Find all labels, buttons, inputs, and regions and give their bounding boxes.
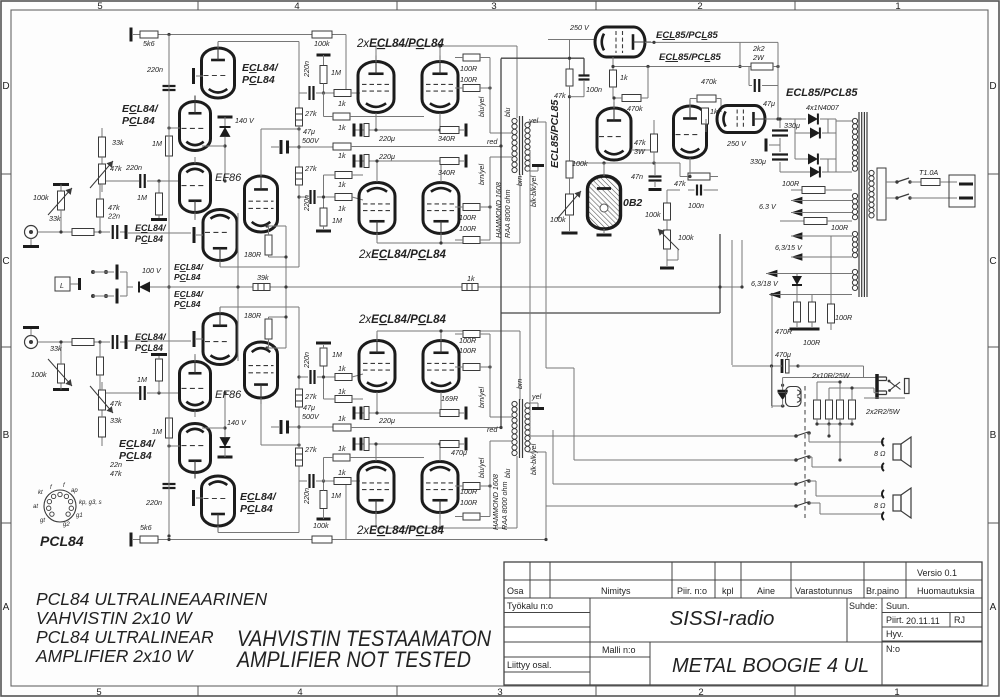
svg-text:C: C	[989, 256, 996, 267]
svg-text:1k: 1k	[338, 468, 346, 477]
svg-text:Työkalu n:o: Työkalu n:o	[507, 601, 553, 611]
cathode row upper pair	[355, 129, 464, 131]
svg-text:Aine: Aine	[757, 586, 775, 596]
capacitor 220u	[353, 124, 356, 137]
svg-text:T1.0A: T1.0A	[919, 168, 938, 177]
svg-text:4: 4	[297, 687, 302, 697]
svg-text:3: 3	[491, 1, 496, 12]
svg-text:1k: 1k	[338, 364, 346, 373]
resistor 1M on main bus	[166, 136, 173, 156]
wire	[345, 35, 347, 91]
svg-text:220n: 220n	[125, 163, 142, 172]
resistor 47k 3W	[631, 149, 654, 151]
svg-text:red: red	[487, 425, 498, 434]
tube EF86 triode V2	[180, 164, 211, 219]
potentiometer 47k	[99, 164, 106, 184]
svg-text:470k: 470k	[627, 104, 643, 113]
svg-text:100k: 100k	[678, 233, 694, 242]
svg-text:1k: 1k	[338, 204, 346, 213]
svg-text:47n: 47n	[631, 172, 643, 181]
resistor 100R v	[811, 295, 813, 303]
svg-text:140 V: 140 V	[227, 418, 247, 427]
svg-text:8 Ω: 8 Ω	[874, 449, 886, 458]
svg-text:Nimitys: Nimitys	[601, 586, 631, 596]
svg-text:PCL84: PCL84	[119, 450, 152, 462]
wires ECL85 stage	[689, 158, 691, 177]
svg-text:RAA 8000 ohm: RAA 8000 ohm	[503, 190, 512, 238]
svg-text:yel: yel	[528, 116, 539, 125]
svg-text:red: red	[487, 137, 498, 146]
title block	[504, 562, 982, 685]
capacitor 220n on main bus	[163, 86, 176, 90]
resistor 47k heater	[688, 173, 710, 180]
terminal bar	[130, 28, 133, 42]
heater winding 2	[852, 231, 857, 236]
resistor 33k feedback	[101, 128, 103, 137]
tube ECL84/PCL84 V1b	[180, 96, 211, 151]
svg-text:1k: 1k	[338, 387, 346, 396]
resistor 1k g2	[333, 113, 350, 120]
svg-text:brn/yel: brn/yel	[479, 164, 486, 185]
svg-text:2: 2	[698, 687, 703, 697]
resistor 2k2 2W	[751, 63, 773, 70]
svg-text:6,3/15 V: 6,3/15 V	[775, 243, 803, 252]
pentode EF86	[245, 170, 278, 232]
wire	[298, 42, 300, 109]
svg-text:100 V: 100 V	[142, 266, 162, 275]
svg-text:PCL84 ULTRALINEAR: PCL84 ULTRALINEAR	[36, 627, 214, 647]
speaker selector switch	[804, 386, 806, 518]
svg-text:20.11.11: 20.11.11	[906, 616, 940, 626]
svg-text:5k6: 5k6	[143, 39, 155, 48]
svg-text:100R: 100R	[835, 313, 852, 322]
svg-text:27k: 27k	[304, 392, 317, 401]
capacitor 22n	[113, 225, 118, 239]
fuse T1.0A	[910, 181, 921, 183]
svg-text:0B2: 0B2	[623, 197, 642, 209]
svg-text:PCL84: PCL84	[135, 234, 163, 244]
svg-text:340R: 340R	[438, 168, 455, 177]
svg-text:100k: 100k	[314, 39, 330, 48]
PCL84 base diagram	[44, 490, 76, 522]
svg-text:1: 1	[894, 687, 899, 697]
svg-text:100k: 100k	[550, 215, 566, 224]
svg-text:100k: 100k	[572, 159, 588, 168]
wire grid line EF86 stage	[100, 180, 139, 182]
svg-text:blu/yel: blu/yel	[479, 457, 486, 478]
svg-text:8 Ω: 8 Ω	[874, 501, 886, 510]
svg-text:1k: 1k	[338, 99, 346, 108]
svg-text:100k: 100k	[313, 521, 329, 530]
svg-text:1k: 1k	[467, 274, 475, 283]
heater winding 1	[852, 193, 857, 198]
svg-text:blu/yel: blu/yel	[479, 96, 486, 117]
capacitor 220n lower	[299, 196, 308, 198]
svg-text:L: L	[60, 283, 64, 290]
resistor 5k6	[140, 31, 158, 38]
svg-text:100k: 100k	[645, 210, 661, 219]
svg-text:330μ: 330μ	[784, 121, 800, 130]
svg-text:2xECL84/PCL84: 2xECL84/PCL84	[356, 525, 445, 537]
svg-text:Osa: Osa	[507, 586, 524, 596]
svg-text:1M: 1M	[152, 427, 162, 436]
wire B+ dark	[500, 59, 502, 428]
svg-text:100R: 100R	[459, 346, 476, 355]
svg-text:PCL84: PCL84	[135, 343, 163, 353]
svg-text:3: 3	[497, 687, 502, 697]
svg-text:500V: 500V	[302, 136, 320, 145]
resistor 47k	[566, 69, 573, 86]
svg-text:at: at	[33, 504, 38, 510]
svg-text:ap: ap	[71, 488, 78, 494]
svg-text:47k: 47k	[674, 179, 686, 188]
capacitor 470u	[781, 359, 784, 373]
resistor 1k mid	[462, 284, 478, 291]
svg-text:250 V: 250 V	[569, 23, 590, 32]
svg-text:kp, g3, s: kp, g3, s	[79, 500, 102, 506]
svg-text:PCL84: PCL84	[122, 115, 155, 127]
load resistors 2x2R2/5W	[814, 400, 821, 419]
resistor 470k 2	[697, 95, 716, 102]
wire B+ mid2	[501, 312, 720, 314]
svg-text:C: C	[2, 256, 9, 267]
resistor 1M	[320, 66, 327, 84]
cathode row lower pair	[355, 160, 464, 162]
screen resistor 100R lower	[463, 204, 480, 211]
grid coupling bar	[192, 68, 195, 84]
svg-text:PCL84: PCL84	[40, 533, 84, 549]
svg-text:220μ: 220μ	[378, 152, 395, 161]
potentiometer 100k b	[664, 230, 671, 249]
svg-text:D: D	[989, 81, 996, 92]
primary winding	[852, 118, 857, 123]
svg-text:2W: 2W	[752, 53, 765, 62]
svg-text:ECL84/: ECL84/	[119, 438, 156, 450]
resistor 100k b	[666, 190, 668, 203]
svg-text:1k: 1k	[620, 73, 628, 82]
resistor 1k g1	[334, 90, 351, 97]
svg-text:33k: 33k	[49, 214, 61, 223]
svg-text:220n: 220n	[302, 61, 311, 78]
svg-text:PCL84 ULTRALINEAARINEN: PCL84 ULTRALINEAARINEN	[36, 589, 268, 609]
core	[519, 116, 521, 175]
svg-text:5: 5	[96, 687, 101, 697]
svg-text:ECL85/PCL85: ECL85/PCL85	[659, 52, 722, 63]
svg-text:47k: 47k	[110, 469, 122, 478]
wire 250V to rectifier	[765, 118, 778, 120]
svg-text:B: B	[3, 430, 10, 441]
svg-text:kt: kt	[38, 490, 43, 496]
svg-text:169R: 169R	[441, 394, 458, 403]
svg-text:RAA 8000 ohm: RAA 8000 ohm	[500, 482, 509, 530]
svg-text:2k2: 2k2	[752, 44, 765, 53]
output tube A2	[422, 56, 458, 113]
svg-text:ECL84/: ECL84/	[135, 223, 167, 233]
mains winding	[869, 170, 874, 175]
svg-text:Malli n:o: Malli n:o	[602, 645, 636, 655]
speaker 8ohm 1	[882, 438, 884, 471]
svg-text:Varastotunnus: Varastotunnus	[795, 586, 853, 596]
svg-text:METAL BOOGIE 4 UL: METAL BOOGIE 4 UL	[672, 655, 869, 677]
resistor 1k	[610, 70, 617, 87]
resistor 470R	[794, 302, 801, 322]
svg-text:2xECL84/PCL84: 2xECL84/PCL84	[358, 249, 447, 261]
secondary	[525, 122, 530, 127]
heater 6.3V wires	[791, 189, 802, 191]
svg-text:Hyv.: Hyv.	[886, 629, 903, 639]
speaker 8ohm 2	[882, 490, 884, 520]
wire feedback box	[220, 266, 299, 268]
svg-text:2: 2	[697, 1, 702, 12]
wire inter-stage vertical	[237, 213, 239, 361]
resistor 1k B+ line	[333, 143, 351, 150]
svg-text:ECL84/: ECL84/	[174, 289, 204, 299]
svg-text:5k6: 5k6	[140, 523, 152, 532]
potentiometer 100k	[566, 194, 574, 215]
diode	[792, 276, 802, 285]
svg-text:ECL84/: ECL84/	[122, 103, 159, 115]
relay protection	[771, 366, 773, 406]
selector switch	[55, 277, 70, 291]
svg-text:HAMMOND 1608: HAMMOND 1608	[491, 474, 500, 530]
wire 250V top	[548, 39, 595, 41]
svg-text:470R: 470R	[775, 327, 792, 336]
svg-text:330μ: 330μ	[750, 157, 766, 166]
wire right verticals	[719, 234, 721, 313]
svg-text:47μ: 47μ	[763, 99, 775, 108]
svg-text:1k: 1k	[338, 180, 346, 189]
grid coupling bar V3	[193, 227, 196, 243]
capacitor 330u	[772, 131, 788, 136]
svg-text:yel: yel	[531, 392, 542, 401]
heater winding 3	[852, 269, 857, 274]
svg-text:A: A	[3, 602, 10, 613]
svg-text:22n: 22n	[107, 212, 120, 221]
resistor 47k	[97, 199, 104, 217]
svg-text:ECL84/: ECL84/	[242, 62, 279, 74]
svg-text:470k: 470k	[701, 77, 717, 86]
svg-text:ECL85/PCL85: ECL85/PCL85	[549, 100, 561, 168]
svg-text:g1: g1	[76, 513, 83, 519]
bias network under tube	[569, 40, 571, 70]
capacitor 220n	[299, 92, 307, 94]
svg-text:33k: 33k	[50, 344, 62, 353]
svg-text:220n: 220n	[145, 498, 162, 507]
svg-text:47k: 47k	[554, 91, 566, 100]
output tube A3	[359, 183, 395, 240]
heater 6.3/18V wires	[766, 270, 777, 278]
svg-text:4x1N4007: 4x1N4007	[806, 103, 840, 112]
resistor 1M lower	[323, 197, 325, 208]
screen resistor 100R	[463, 85, 480, 92]
potentiometer 100k input	[53, 183, 69, 186]
wire feedback vertical	[285, 226, 287, 348]
svg-text:Br.paino: Br.paino	[866, 586, 899, 596]
svg-text:2x2R2/5W: 2x2R2/5W	[865, 407, 901, 416]
svg-text:100n: 100n	[688, 201, 704, 210]
ground bar	[317, 54, 331, 57]
svg-text:Liittyy osal.: Liittyy osal.	[507, 660, 552, 670]
svg-text:470μ: 470μ	[775, 350, 791, 359]
svg-text:2xECL84/PCL84: 2xECL84/PCL84	[356, 38, 445, 50]
svg-text:1M: 1M	[331, 491, 341, 500]
rectifier to primary wires	[836, 120, 852, 122]
capacitor 47n	[649, 177, 662, 181]
svg-text:AMPLIFIER 2x10 W: AMPLIFIER 2x10 W	[35, 646, 194, 666]
capacitor 47u 500V	[280, 140, 283, 154]
svg-text:1k: 1k	[710, 107, 718, 116]
output tube A4	[423, 183, 459, 240]
svg-text:1M: 1M	[331, 68, 341, 77]
svg-text:g2: g2	[63, 522, 70, 528]
resistor 100R v2	[830, 257, 832, 304]
svg-text:5: 5	[97, 1, 102, 12]
svg-text:ECL84/: ECL84/	[240, 491, 277, 503]
svg-text:140 V: 140 V	[235, 116, 255, 125]
headphone jack	[875, 374, 879, 399]
mains switch	[886, 181, 897, 183]
svg-text:1M: 1M	[332, 216, 342, 225]
svg-text:39k: 39k	[257, 273, 269, 282]
svg-text:1: 1	[895, 1, 900, 12]
channel B geometry (mirror)	[23, 307, 546, 547]
svg-text:100R: 100R	[459, 336, 476, 345]
capacitor 100n 2	[697, 185, 701, 196]
svg-text:1M: 1M	[137, 375, 147, 384]
svg-text:250 V: 250 V	[726, 139, 747, 148]
svg-text:3W: 3W	[634, 147, 646, 156]
svg-text:100R: 100R	[460, 64, 477, 73]
svg-text:6.3 V: 6.3 V	[759, 202, 777, 211]
wire bottom bus extension	[346, 539, 546, 541]
resistor 27k	[296, 108, 303, 126]
svg-text:27k: 27k	[304, 109, 317, 118]
svg-text:PCL84: PCL84	[174, 299, 201, 309]
svg-text:ECL85/PCL85: ECL85/PCL85	[786, 87, 858, 99]
wire 163 row	[570, 162, 681, 164]
tube ECL85/PCL85 horizontal 2	[717, 106, 771, 133]
svg-text:1M: 1M	[152, 139, 162, 148]
resistor 180R	[265, 224, 268, 227]
svg-text:220n: 220n	[302, 195, 311, 212]
resistor 1k 2	[702, 108, 709, 124]
svg-text:220μ: 220μ	[378, 134, 395, 143]
svg-text:PCL84: PCL84	[240, 503, 273, 515]
wire 2x10R row	[798, 365, 864, 367]
tube ECL85 triode 2	[674, 100, 707, 158]
rectifier diodes 4x1N4007	[808, 114, 818, 125]
svg-text:100R: 100R	[460, 75, 477, 84]
svg-text:N:o: N:o	[886, 644, 900, 654]
svg-text:blu: blu	[505, 469, 512, 478]
svg-text:220μ: 220μ	[378, 416, 395, 425]
screen resistor 100R lower2	[463, 237, 480, 244]
heater 6.3/15V wires	[791, 232, 802, 240]
svg-text:100R: 100R	[459, 224, 476, 233]
svg-text:brn/yel: brn/yel	[479, 387, 486, 408]
svg-text:ECL84/: ECL84/	[135, 332, 167, 342]
svg-text:Piirt.: Piirt.	[886, 615, 904, 625]
svg-text:B: B	[990, 430, 997, 441]
wire anode row	[218, 41, 299, 43]
svg-text:33k: 33k	[110, 416, 122, 425]
svg-text:47k: 47k	[634, 138, 646, 147]
svg-text:AMPLIFIER NOT TESTED: AMPLIFIER NOT TESTED	[235, 647, 471, 672]
tube ECL84/PCL84 V3	[203, 210, 237, 267]
svg-text:47μ: 47μ	[303, 127, 315, 136]
output transformer HAMMOND 1608 primary	[512, 118, 517, 123]
anode wires to transformer	[375, 46, 377, 62]
svg-text:blk-blk/yel: blk-blk/yel	[531, 443, 538, 475]
svg-text:Piir. n:o: Piir. n:o	[677, 586, 707, 596]
capacitor 220n	[140, 174, 145, 188]
svg-text:47k: 47k	[110, 164, 122, 173]
svg-text:100R: 100R	[803, 338, 820, 347]
svg-text:gt: gt	[40, 518, 45, 524]
wire cathode	[202, 145, 225, 147]
svg-text:1M: 1M	[137, 193, 147, 202]
wire anode feedback	[260, 129, 262, 176]
wire screen	[613, 66, 751, 68]
tube ECL84/PCL84 V1a	[202, 42, 235, 98]
svg-text:blk-blk/yel: blk-blk/yel	[531, 175, 538, 207]
svg-text:1k: 1k	[338, 151, 346, 160]
ground	[30, 239, 32, 246]
tube ECL85/PCL85 horizontal 1	[595, 27, 651, 57]
svg-text:PCL84: PCL84	[174, 272, 201, 282]
output tube 2xECL84/PCL84 A1	[358, 56, 394, 113]
svg-text:180R: 180R	[244, 311, 261, 320]
svg-text:Suun.: Suun.	[886, 601, 910, 611]
svg-text:brn: brn	[517, 176, 524, 186]
resistor 1k g4	[335, 194, 352, 201]
svg-text:EF86: EF86	[215, 389, 242, 401]
capacitor 47u	[748, 67, 750, 86]
svg-text:ECL84/: ECL84/	[174, 262, 204, 272]
wire top bus channel A	[133, 34, 346, 36]
svg-text:A: A	[990, 602, 997, 613]
svg-text:47k: 47k	[110, 399, 122, 408]
svg-text:100R: 100R	[782, 179, 799, 188]
resistor 100k	[566, 161, 573, 178]
svg-text:100n: 100n	[586, 85, 602, 94]
svg-text:VAHVISTIN 2x10 W: VAHVISTIN 2x10 W	[36, 608, 193, 628]
resistor 470k	[622, 95, 641, 102]
svg-text:1k: 1k	[338, 444, 346, 453]
svg-text:Versio 0.1: Versio 0.1	[917, 568, 957, 578]
wire anode 250V	[645, 41, 778, 43]
svg-text:27k: 27k	[304, 445, 317, 454]
svg-text:4: 4	[294, 1, 299, 12]
svg-text:SISSI-radio: SISSI-radio	[670, 607, 775, 630]
svg-text:2x10R/25W: 2x10R/25W	[811, 371, 851, 380]
resistor 340R	[440, 127, 459, 134]
diode 100V	[138, 282, 140, 293]
svg-text:100R: 100R	[459, 213, 476, 222]
svg-text:1M: 1M	[332, 350, 342, 359]
svg-text:340R: 340R	[438, 134, 455, 143]
resistor 1k g3	[335, 172, 352, 179]
power transformer T1	[858, 112, 860, 297]
svg-text:100R: 100R	[460, 487, 477, 496]
resistor 33k input	[72, 229, 94, 236]
capacitor 220u lower	[353, 155, 356, 168]
resistor 39k	[253, 284, 270, 291]
tube ECL85 triode	[597, 102, 631, 160]
svg-text:180R: 180R	[244, 250, 261, 259]
capacitor 100n	[583, 58, 585, 75]
zener 140V	[218, 116, 233, 119]
